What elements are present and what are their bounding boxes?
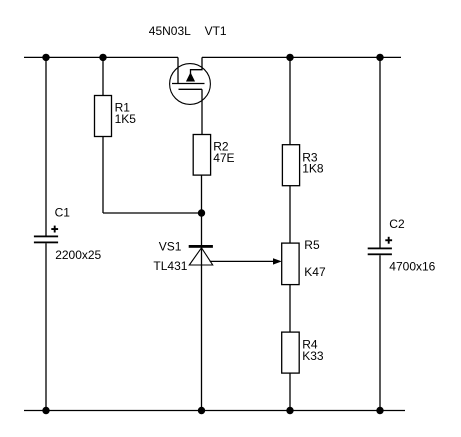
wire top bus left segment — [24, 56, 178, 58]
wire top bus right segment — [202, 56, 401, 58]
resistor R3 — [282, 145, 299, 186]
capacitor C1 top plate — [34, 236, 58, 238]
svg-text:C2: C2 — [389, 217, 405, 231]
svg-text:C1: C1 — [55, 206, 71, 220]
VT1 substrate arrow — [186, 73, 194, 82]
junction dot top bus C2 — [376, 54, 383, 61]
junction dot bottom bus C2 — [376, 407, 383, 414]
wire R3 to R5 — [289, 186, 291, 243]
potentiometer R5 — [282, 243, 299, 285]
junction dot bottom bus R4 — [286, 407, 293, 414]
wire VT1 channel line — [172, 83, 205, 85]
capacitor C2 top plate — [368, 248, 392, 250]
resistor R2 — [193, 135, 210, 176]
junction dot top bus C1 — [42, 54, 49, 61]
svg-text:K47: K47 — [304, 265, 326, 279]
svg-text:K33: K33 — [302, 349, 324, 363]
svg-text:TL431: TL431 — [153, 259, 187, 273]
svg-text:47E: 47E — [213, 151, 234, 165]
wire VT1 source lead — [177, 57, 179, 83]
wire top bus to R1 — [102, 57, 104, 95]
svg-text:R5: R5 — [304, 238, 320, 252]
svg-text:4700x16: 4700x16 — [389, 260, 435, 274]
svg-text:2200x25: 2200x25 — [55, 248, 101, 262]
VS1 arrow head — [273, 258, 282, 264]
VS1 TL431 cathode bar — [189, 245, 213, 248]
capacitor C1 bottom plate — [34, 242, 58, 244]
wire C1 to bottom bus — [45, 243, 47, 410]
svg-text:1K8: 1K8 — [302, 162, 324, 176]
junction dot top bus R3 — [286, 54, 293, 61]
svg-text:VS1: VS1 — [159, 240, 182, 254]
wire R5 to R4 — [289, 285, 291, 333]
junction dot bottom bus C1 — [42, 407, 49, 414]
transistor VT1 body circle — [170, 64, 211, 105]
node A junction dot — [198, 209, 205, 216]
wire R1 bottom down — [102, 137, 104, 214]
wire C2 to bottom bus — [379, 255, 381, 410]
svg-text:VT1: VT1 — [205, 24, 227, 38]
resistor R4 — [282, 332, 300, 373]
svg-text:45N03L: 45N03L — [149, 24, 191, 38]
VS1 TL431 triangle — [189, 248, 212, 265]
wire R4 to bottom bus — [289, 373, 291, 410]
wire R1 to node A — [103, 212, 202, 214]
C2 plus sign — [385, 239, 392, 241]
junction dot bottom bus VS1 — [198, 407, 205, 414]
wire top bus to R3 — [289, 57, 291, 144]
wire VT1 drain lead with corner — [191, 57, 203, 74]
wire VT1 gate to R2 — [201, 89, 203, 134]
wire top bus to C1 — [45, 57, 47, 235]
wire R2 bottom to VS1 and ground — [201, 175, 203, 410]
svg-text:1K5: 1K5 — [115, 112, 137, 126]
wire VS1 reference arrow to R5 — [210, 260, 274, 262]
wire bottom bus — [24, 410, 405, 412]
resistor R1 — [95, 96, 112, 137]
wire top bus to C2 — [379, 57, 381, 247]
C1 plus sign — [51, 228, 58, 230]
junction dot top bus R1 — [99, 54, 106, 61]
capacitor C2 bottom plate — [368, 253, 392, 255]
wire VT1 gate line — [179, 88, 203, 90]
